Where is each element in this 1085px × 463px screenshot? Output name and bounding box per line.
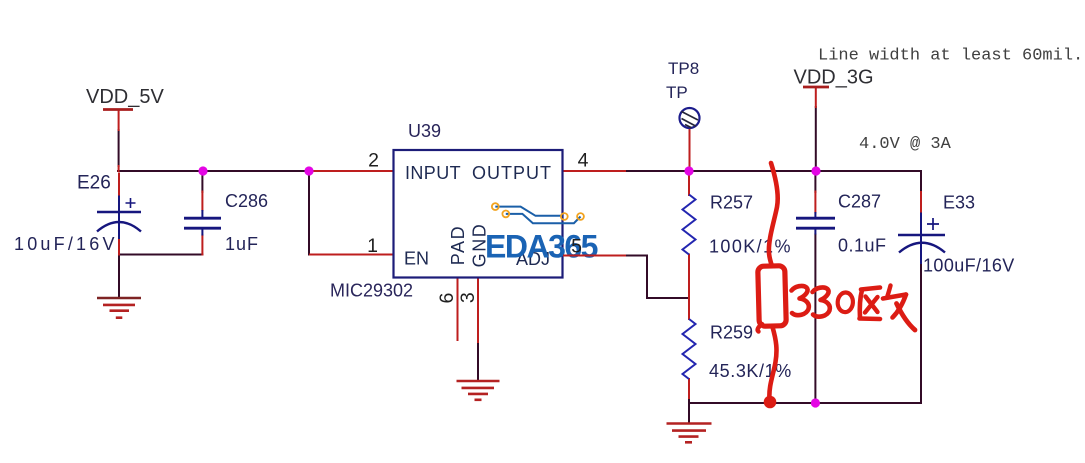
svg-text:INPUT: INPUT <box>405 163 461 183</box>
svg-text:TP: TP <box>666 83 688 102</box>
svg-text:3: 3 <box>457 292 479 303</box>
svg-text:R257: R257 <box>710 193 753 213</box>
svg-text:4: 4 <box>578 150 589 172</box>
svg-text:C287: C287 <box>838 192 881 212</box>
svg-text:2: 2 <box>368 150 379 172</box>
svg-text:4.0V @ 3A: 4.0V @ 3A <box>859 135 952 154</box>
svg-text:1: 1 <box>367 235 378 257</box>
svg-text:10uF/16V: 10uF/16V <box>14 234 118 254</box>
svg-text:R259: R259 <box>710 323 753 343</box>
svg-text:E26: E26 <box>77 173 111 194</box>
svg-text:6: 6 <box>436 293 458 304</box>
svg-text:C286: C286 <box>225 191 268 211</box>
svg-text:100K/1%: 100K/1% <box>709 237 792 257</box>
svg-text:TP8: TP8 <box>668 59 699 78</box>
svg-text:E33: E33 <box>943 193 975 213</box>
svg-text:MIC29302: MIC29302 <box>330 281 413 301</box>
svg-text:EN: EN <box>404 249 429 269</box>
svg-text:45.3K/1%: 45.3K/1% <box>709 361 792 381</box>
svg-text:100uF/16V: 100uF/16V <box>923 256 1015 276</box>
svg-text:0.1uF: 0.1uF <box>838 236 887 256</box>
svg-text:VDD_3G: VDD_3G <box>794 67 874 89</box>
svg-text:U39: U39 <box>408 121 441 141</box>
svg-text:PAD: PAD <box>448 225 468 265</box>
svg-text:1uF: 1uF <box>225 234 259 254</box>
svg-text:5: 5 <box>571 236 582 258</box>
svg-text:Line width at least 60mil.: Line width at least 60mil. <box>818 47 1083 66</box>
svg-text:OUTPUT: OUTPUT <box>472 163 552 183</box>
svg-text:VDD_5V: VDD_5V <box>86 86 164 108</box>
